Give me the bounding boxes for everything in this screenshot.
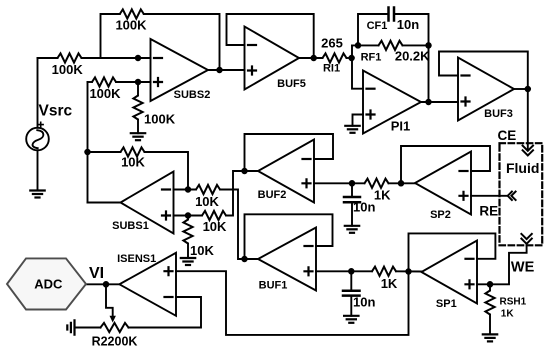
wire: BUF2 output to SUBS1 + path xyxy=(226,171,258,216)
ground below 10K shunt xyxy=(181,258,195,265)
node dot feedback left xyxy=(356,43,361,48)
svg-text:10n: 10n xyxy=(353,200,375,215)
op-amp BUF3 xyxy=(458,58,514,121)
CE chevron connector xyxy=(523,146,533,156)
minus sign SP2 xyxy=(460,170,468,172)
wire: 10K right elbow down to SUBS1 inverting input xyxy=(145,152,189,190)
node dot SP2 output xyxy=(399,181,404,186)
plus sign SUBS2 xyxy=(154,78,162,86)
op-amp BUF5 xyxy=(245,27,300,90)
wire: left vertical from 100K down to SUBS1 output node xyxy=(87,82,89,203)
minus sign ISENS1 xyxy=(165,296,173,298)
wire: WE node to SP1 + input xyxy=(477,244,527,284)
wire: pot wiper xyxy=(106,284,113,316)
resistor 100K feedback of SUBS2 xyxy=(120,9,144,18)
node dot BUF1 output xyxy=(242,257,247,262)
svg-text:SP2: SP2 xyxy=(430,209,451,221)
op-amp BUF1 (left pointing) xyxy=(258,228,316,291)
svg-text:RE: RE xyxy=(479,203,498,218)
svg-text:265: 265 xyxy=(321,36,343,51)
svg-text:1K: 1K xyxy=(501,309,515,320)
plus sign BUF1 xyxy=(305,267,313,275)
RE chevron connector xyxy=(508,192,516,200)
wire: BUF2 feedback loop xyxy=(245,134,334,171)
wire: RF1 right lead xyxy=(403,44,429,46)
wire: SP1 feedback loop xyxy=(409,233,496,271)
resistor 1K after SP2 xyxy=(365,179,389,188)
svg-text:Fluid: Fluid xyxy=(506,160,539,176)
svg-text:BUF2: BUF2 xyxy=(258,189,287,201)
wire: SUBS1 output to node A xyxy=(88,202,121,204)
resistor 10K shunt at SUBS1 xyxy=(183,220,192,244)
op-amp SUBS2 xyxy=(151,39,209,101)
wire: Vsrc to series resistor xyxy=(38,57,58,59)
node dot inverting input SUBS2 xyxy=(136,56,141,61)
plus sign SP1 xyxy=(466,280,474,288)
svg-text:100K: 100K xyxy=(52,62,84,77)
svg-text:SUBS2: SUBS2 xyxy=(174,89,211,101)
svg-text:BUF5: BUF5 xyxy=(277,78,306,90)
capacitor 10n plates (SP2 branch) xyxy=(344,197,360,202)
plus sign SUBS1 xyxy=(162,212,170,220)
wire: PI1 output to BUF3 xyxy=(421,101,458,103)
svg-text:BUF1: BUF1 xyxy=(259,279,288,291)
plus sign SP2 xyxy=(460,192,468,200)
wiper arrowhead xyxy=(110,316,116,323)
wire: CE electrode lead down xyxy=(527,89,529,150)
resistor 100K series input xyxy=(58,53,82,62)
wire: RSH1 to ground xyxy=(489,315,491,335)
ground below 10n 2 xyxy=(344,316,358,323)
wire: BUF3 output xyxy=(514,88,528,90)
svg-text:RF1: RF1 xyxy=(361,51,382,63)
wire: RI1 to PI1 inverting branch xyxy=(347,57,353,59)
wire: SUBS2 output to BUF5 xyxy=(208,69,245,71)
wire: shunt resistor to ground xyxy=(137,120,139,134)
op-amp BUF2 (left pointing) xyxy=(258,140,314,203)
ground below RSH1 xyxy=(483,334,497,341)
plus sign ISENS1 xyxy=(165,267,173,275)
wire: SP2 output row to BUF2 xyxy=(389,182,416,184)
wire: RSH1 top lead xyxy=(489,284,491,290)
ground below Vsrc xyxy=(30,191,44,198)
minus sign SUBS2 xyxy=(154,57,162,59)
resistor 10K to SUBS1 + xyxy=(202,211,226,220)
wire: SUBS2 feedback top rail xyxy=(144,14,220,70)
dashed box Fluid cell xyxy=(500,143,543,245)
plus sign BUF2 xyxy=(303,179,311,187)
resistor 100K to non-inverting input xyxy=(92,77,116,86)
wire: BUF5 output xyxy=(299,57,323,59)
capacitor CF1 plates xyxy=(389,8,395,21)
wire: 1K to BUF2 + input xyxy=(314,182,365,184)
wire: ISENS1 output to ADC xyxy=(86,283,119,285)
wire: node A to 10K xyxy=(88,151,121,153)
node dot filter cap 2 xyxy=(349,269,354,274)
wire: 1K to SP1 output xyxy=(396,270,421,272)
svg-text:100K: 100K xyxy=(115,18,147,33)
svg-text:WE: WE xyxy=(511,260,535,276)
svg-text:RSH1: RSH1 xyxy=(500,297,527,308)
ground at PI1 + input xyxy=(345,126,359,133)
node dot PI1 output xyxy=(426,100,431,105)
svg-text:Vsrc: Vsrc xyxy=(39,102,73,119)
wire: SP1 output down and across to ISENS1 + xyxy=(176,271,409,335)
resistor RI1 265 xyxy=(323,53,347,62)
wire: PI1 + input to ground xyxy=(353,115,364,126)
resistor 100K shunt vertical xyxy=(133,96,142,120)
node dot SUBS1 + input xyxy=(186,213,191,218)
wire: cap 10n upper lead xyxy=(351,183,353,196)
node dot VI xyxy=(104,282,109,287)
capacitor 10n plates (SP1 branch) xyxy=(343,291,360,296)
wire: CF1 right to right leg xyxy=(394,14,429,102)
wire: vertical into PI1 inverting input xyxy=(352,45,363,88)
minus sign BUF2 xyxy=(303,158,311,160)
wire: cap to ground xyxy=(350,296,352,316)
svg-text:20.2K: 20.2K xyxy=(395,48,430,63)
ground left-facing at pot xyxy=(67,320,74,334)
minus sign SUBS1 xyxy=(162,188,170,190)
node dot BUF2 output xyxy=(242,169,247,174)
op-amp SP1 (left pointing) xyxy=(421,241,477,304)
resistor RF1 20.2K xyxy=(379,41,403,50)
wire: cap to ground xyxy=(351,202,353,226)
svg-text:10n: 10n xyxy=(353,294,375,309)
svg-text:RI1: RI1 xyxy=(323,63,340,75)
wire: 10K to SUBS1 + input xyxy=(174,215,203,217)
svg-text:BUF3: BUF3 xyxy=(484,108,513,120)
minus sign PI1 xyxy=(367,88,375,90)
potentiometer R2200K body xyxy=(101,323,129,332)
resistor 10K feedback from BUF1 xyxy=(196,185,220,194)
minus sign SP1 xyxy=(466,258,474,260)
source Vsrc circle xyxy=(26,128,49,151)
svg-text:10K: 10K xyxy=(195,194,219,209)
wire: corner into 100K to SUBS2 + input xyxy=(88,81,93,83)
wire: RF1 left lead xyxy=(358,44,379,46)
ground below 100K shunt xyxy=(131,133,145,140)
node dot non-inverting input SUBS2 xyxy=(136,80,141,85)
node dot filter cap 1 xyxy=(350,181,355,186)
svg-text:10K: 10K xyxy=(121,155,145,170)
wire: cap 10n upper lead (SP1 branch) xyxy=(350,271,352,289)
plus sign BUF3 xyxy=(462,98,470,106)
minus sign BUF3 xyxy=(462,74,470,76)
svg-text:PI1: PI1 xyxy=(391,119,411,134)
wire: to SUBS2 + input xyxy=(116,81,151,83)
wire: Vsrc top lead xyxy=(37,58,39,128)
wire: BUF1 + input row xyxy=(316,270,372,272)
wire: RE input to SP2 + xyxy=(471,195,508,197)
node dot BUF3 output xyxy=(526,87,531,92)
wire: SUBS1 - input row xyxy=(174,189,197,191)
plus sign PI1 xyxy=(367,111,375,119)
resistor 1K after SP1 xyxy=(372,267,396,276)
wire: BUF1 feedback loop xyxy=(245,214,333,259)
wire: jog to feedback left leg xyxy=(352,14,389,45)
wire: BUF5 feedback loop xyxy=(227,14,314,58)
svg-text:10n: 10n xyxy=(397,17,419,32)
wire: ISENS1 - input to pot wiper loop xyxy=(129,297,202,328)
wire: pot left lead xyxy=(75,327,101,329)
wire: Vsrc bottom lead xyxy=(37,150,39,190)
wire: feedback left leg down to inverting input xyxy=(101,14,120,58)
svg-text:VI: VI xyxy=(89,265,104,282)
node dot RSH1 top xyxy=(488,282,493,287)
ground below 10n xyxy=(345,226,359,233)
ADC hexagon xyxy=(7,258,86,309)
node A dot at x=88 y=152 xyxy=(85,150,90,155)
svg-text:ADC: ADC xyxy=(34,277,63,292)
svg-text:CF1: CF1 xyxy=(367,20,388,32)
minus sign BUF5 xyxy=(248,44,256,46)
wire: stub from + input node down to 100K shunt xyxy=(137,82,139,96)
wire: to SUBS2 inverting input xyxy=(82,57,151,59)
svg-text:SP1: SP1 xyxy=(436,298,457,310)
wire: 10K shunt stub xyxy=(187,216,189,220)
svg-text:CE: CE xyxy=(498,128,517,143)
wire: SP2 feedback loop xyxy=(401,146,490,183)
op-amp SP2 (left pointing) xyxy=(415,152,471,215)
svg-text:10K: 10K xyxy=(203,219,227,234)
plus sign BUF5 xyxy=(248,67,256,75)
node dot feedback right xyxy=(426,43,431,48)
node dot SP1 output xyxy=(406,269,411,274)
wire: to ground xyxy=(187,244,189,259)
node dot right of RI1 xyxy=(349,56,354,61)
svg-text:R2200K: R2200K xyxy=(92,334,138,348)
svg-text:1K: 1K xyxy=(381,276,398,291)
wire: 10K elbow down to BUF1 output xyxy=(220,190,258,260)
op-amp PI1 xyxy=(363,71,421,134)
sine wave inside Vsrc xyxy=(33,130,44,148)
resistor RSH1 1K vertical xyxy=(485,291,494,315)
node dot SUBS1 - input xyxy=(186,187,191,192)
svg-text:100K: 100K xyxy=(89,86,121,101)
svg-text:10K: 10K xyxy=(190,243,214,258)
WE chevron connector xyxy=(521,234,531,244)
node dot BUF5 output xyxy=(311,56,316,61)
svg-text:100K: 100K xyxy=(144,112,176,127)
svg-text:ISENS1: ISENS1 xyxy=(117,253,156,265)
op-amp SUBS1 (left pointing) xyxy=(121,172,174,234)
wire: BUF3 feedback loop xyxy=(439,52,528,90)
svg-text:1K: 1K xyxy=(374,187,391,202)
op-amp ISENS1 (left pointing, + on top) xyxy=(119,253,176,316)
plus polarity mark of Vsrc xyxy=(38,122,43,127)
resistor 10K from node A to SUBS1 inverting xyxy=(121,147,145,156)
svg-text:SUBS1: SUBS1 xyxy=(112,220,149,232)
minus sign BUF1 xyxy=(305,245,313,247)
node dot SUBS2 output xyxy=(217,68,222,73)
